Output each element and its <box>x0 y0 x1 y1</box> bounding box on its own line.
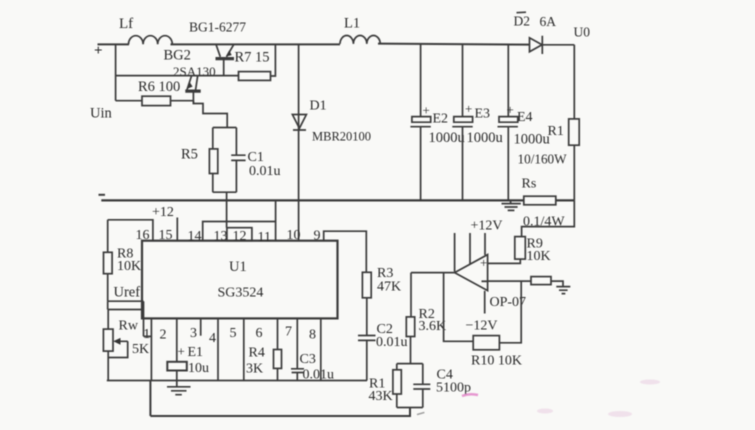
resistor R1 <box>569 119 580 145</box>
box pins 13-12 short <box>227 228 252 241</box>
wire R3 to C2 <box>366 298 368 336</box>
svg-text:E1: E1 <box>188 345 204 360</box>
svg-text:1000u: 1000u <box>467 130 503 146</box>
potentiometer Rw body <box>103 329 113 351</box>
svg-text:R4: R4 <box>249 346 265 361</box>
svg-text:E3: E3 <box>475 107 491 122</box>
resistor feedback horizontal <box>531 277 551 285</box>
capacitor E2 <box>410 117 430 127</box>
resistor R4 <box>274 350 282 369</box>
ground at rail <box>502 200 521 210</box>
wire minus rail <box>101 199 574 201</box>
svg-text:L1: L1 <box>344 16 360 32</box>
wire box bottom to bottom rail <box>150 381 410 417</box>
transistor BG2 arrow <box>188 82 193 89</box>
wire R6 to BG2 base <box>171 100 194 102</box>
svg-text:43K: 43K <box>369 389 393 404</box>
capacitor C3 <box>291 369 304 373</box>
wire output row <box>411 272 455 274</box>
op-amp minus sign <box>482 280 488 282</box>
resistor R2 <box>406 317 414 337</box>
svg-text:3.6K: 3.6K <box>419 319 447 334</box>
capacitor C4 <box>413 384 430 389</box>
svg-text:D2: D2 <box>514 14 531 29</box>
svg-text:+: + <box>465 101 472 116</box>
svg-text:15: 15 <box>159 228 173 243</box>
wire pin8 column <box>320 318 322 380</box>
transistor BG1 <box>216 44 235 75</box>
wire pin6 R4 column <box>277 318 279 380</box>
wire output to R2 <box>410 273 412 317</box>
svg-text:1000u: 1000u <box>514 132 550 148</box>
diode D2 <box>530 36 543 54</box>
svg-text:C1: C1 <box>248 150 264 165</box>
svg-text:0.01u: 0.01u <box>376 335 408 350</box>
inductor Lf <box>129 36 173 45</box>
capacitor E3 column <box>462 44 464 200</box>
label D2 overline <box>517 11 527 14</box>
wire R7 to top rail <box>271 44 276 76</box>
svg-text:R5: R5 <box>181 147 198 163</box>
wire top rail to U0 corner <box>542 44 574 46</box>
box R5 C1 frame <box>213 128 237 193</box>
svg-text:3K: 3K <box>246 362 263 377</box>
svg-text:10: 10 <box>287 228 301 243</box>
watermark faint spots <box>537 380 660 418</box>
svg-text:R7 15: R7 15 <box>235 50 270 66</box>
wire pin7 C3 column <box>296 318 298 380</box>
wire pin4 column <box>217 318 219 380</box>
svg-text:1000u: 1000u <box>429 130 465 146</box>
wire D1 column <box>298 44 300 240</box>
resistor R9 <box>515 237 526 260</box>
svg-text:+12: +12 <box>152 205 174 220</box>
svg-text:5: 5 <box>230 326 237 341</box>
svg-text:E4: E4 <box>517 110 533 125</box>
ground under E1 <box>167 387 191 395</box>
svg-text:6A: 6A <box>540 14 557 29</box>
svg-text:11: 11 <box>258 230 271 245</box>
svg-text:U0: U0 <box>574 25 591 40</box>
wire pin16 stub <box>108 220 153 241</box>
svg-text:2SA130: 2SA130 <box>173 64 216 79</box>
wire resistor to ground <box>551 281 563 287</box>
resistor R8 <box>104 252 113 273</box>
svg-text:Rs: Rs <box>522 177 537 192</box>
transistor BG1 arrow <box>226 50 232 56</box>
op-amp minus supply stub <box>484 291 486 314</box>
potentiometer Rw wiper arrow <box>113 338 120 345</box>
svg-text:SG3524: SG3524 <box>218 286 264 301</box>
wire pin5 column <box>243 318 245 380</box>
svg-text:R6 100: R6 100 <box>138 79 180 95</box>
svg-text:4: 4 <box>209 331 216 346</box>
svg-text:E2: E2 <box>433 112 449 127</box>
svg-text:0.01u: 0.01u <box>249 164 281 179</box>
wire pin3 stub <box>200 318 202 335</box>
potentiometer Rw wiper <box>108 341 127 357</box>
svg-text:+: + <box>94 43 103 59</box>
capacitor E4 column <box>507 44 509 200</box>
wire pin9 hook <box>324 231 367 272</box>
svg-text:10K: 10K <box>117 259 141 274</box>
wire bottom bus <box>107 380 367 382</box>
wire R2 to box <box>410 337 412 364</box>
svg-text:+: + <box>178 344 185 359</box>
wire C1 box to pin12 box <box>226 192 228 228</box>
wire U0 column <box>573 45 575 201</box>
svg-text:1: 1 <box>143 327 150 342</box>
svg-text:10K: 10K <box>527 249 551 264</box>
wire R1 bottom to R9 top <box>522 200 575 236</box>
resistor R7 <box>239 72 271 81</box>
capacitor E1 <box>167 362 187 371</box>
wire minus input row <box>488 280 531 282</box>
capacitor E3 <box>452 117 472 127</box>
svg-text:9: 9 <box>314 229 321 244</box>
wire left rail R8 <box>107 220 109 301</box>
resistor R6 <box>142 96 171 105</box>
resistor R10 <box>473 336 499 350</box>
wire pin15 stub <box>176 218 178 241</box>
svg-text:47K: 47K <box>377 280 401 295</box>
svg-text:+: + <box>480 255 487 270</box>
stray scan tick <box>417 412 424 414</box>
svg-text:C3: C3 <box>300 352 316 367</box>
svg-text:+: + <box>507 102 514 117</box>
label minus terminal <box>99 194 106 196</box>
svg-text:Uref: Uref <box>114 285 141 301</box>
inductor L1 <box>340 36 380 44</box>
svg-text:Rw: Rw <box>119 319 139 334</box>
wire uref hook <box>108 301 144 336</box>
svg-text:+: + <box>423 103 430 118</box>
wire base row <box>116 75 239 77</box>
wire top rail middle <box>171 43 341 45</box>
wire top rail <box>98 43 130 45</box>
svg-text:5K: 5K <box>132 342 149 357</box>
wire BG2 base step down <box>193 101 227 128</box>
wire pin2 E1 column <box>176 318 178 386</box>
wire pin14 pin11 to rail <box>203 200 276 240</box>
resistor R1 43K <box>393 370 401 394</box>
svg-text:+12V: +12V <box>471 219 503 234</box>
diode D1 <box>292 115 306 131</box>
IC U1 box <box>142 241 338 319</box>
svg-text:14: 14 <box>188 229 202 244</box>
svg-text:R1: R1 <box>548 124 564 139</box>
capacitor C1 <box>231 155 245 160</box>
ground right <box>556 287 570 294</box>
svg-text:BG2: BG2 <box>164 48 191 64</box>
resistor R3 <box>362 272 371 298</box>
resistor R5 <box>209 149 217 174</box>
capacitor E2 column <box>420 44 422 200</box>
capacitor C2 <box>358 336 376 341</box>
wire C2 to bus <box>366 340 368 380</box>
op-amp U2 triangle <box>455 255 488 291</box>
svg-text:R10 10K: R10 10K <box>471 354 522 369</box>
wire R6 row <box>116 100 142 102</box>
svg-text:10/160W: 10/160W <box>518 152 568 167</box>
capacitor E4 <box>498 117 518 127</box>
wire output to R10 left <box>444 273 474 342</box>
watermark pink smudge <box>462 394 478 396</box>
wire pin1 column <box>144 318 152 380</box>
wire R9 to plus input <box>488 259 521 263</box>
op-amp supply stubs <box>455 233 485 272</box>
svg-text:13: 13 <box>214 229 228 244</box>
svg-text:MBR20100: MBR20100 <box>312 130 371 144</box>
svg-text:5100p: 5100p <box>436 381 471 396</box>
svg-text:3: 3 <box>190 326 197 341</box>
svg-text:D1: D1 <box>310 99 327 114</box>
resistor Rs <box>524 196 556 205</box>
box R1 C4 frame <box>397 364 423 408</box>
svg-text:16: 16 <box>136 228 150 243</box>
wire top rail right <box>378 44 530 45</box>
svg-text:BG1-6277: BG1-6277 <box>189 20 246 35</box>
transistor BG2 <box>185 76 200 104</box>
svg-text:2: 2 <box>160 328 167 343</box>
svg-text:10u: 10u <box>188 361 209 376</box>
svg-text:Uin: Uin <box>90 106 113 122</box>
svg-text:−12V: −12V <box>466 319 498 334</box>
svg-text:12: 12 <box>233 229 247 244</box>
wire minus input to R10 <box>499 281 521 343</box>
svg-text:U1: U1 <box>229 259 247 275</box>
potentiometer Rw stubs <box>107 310 109 381</box>
svg-text:Lf: Lf <box>119 16 133 32</box>
wire left rail <box>115 44 117 100</box>
svg-text:8: 8 <box>309 328 316 343</box>
svg-text:7: 7 <box>285 325 292 340</box>
svg-text:6: 6 <box>256 326 263 341</box>
